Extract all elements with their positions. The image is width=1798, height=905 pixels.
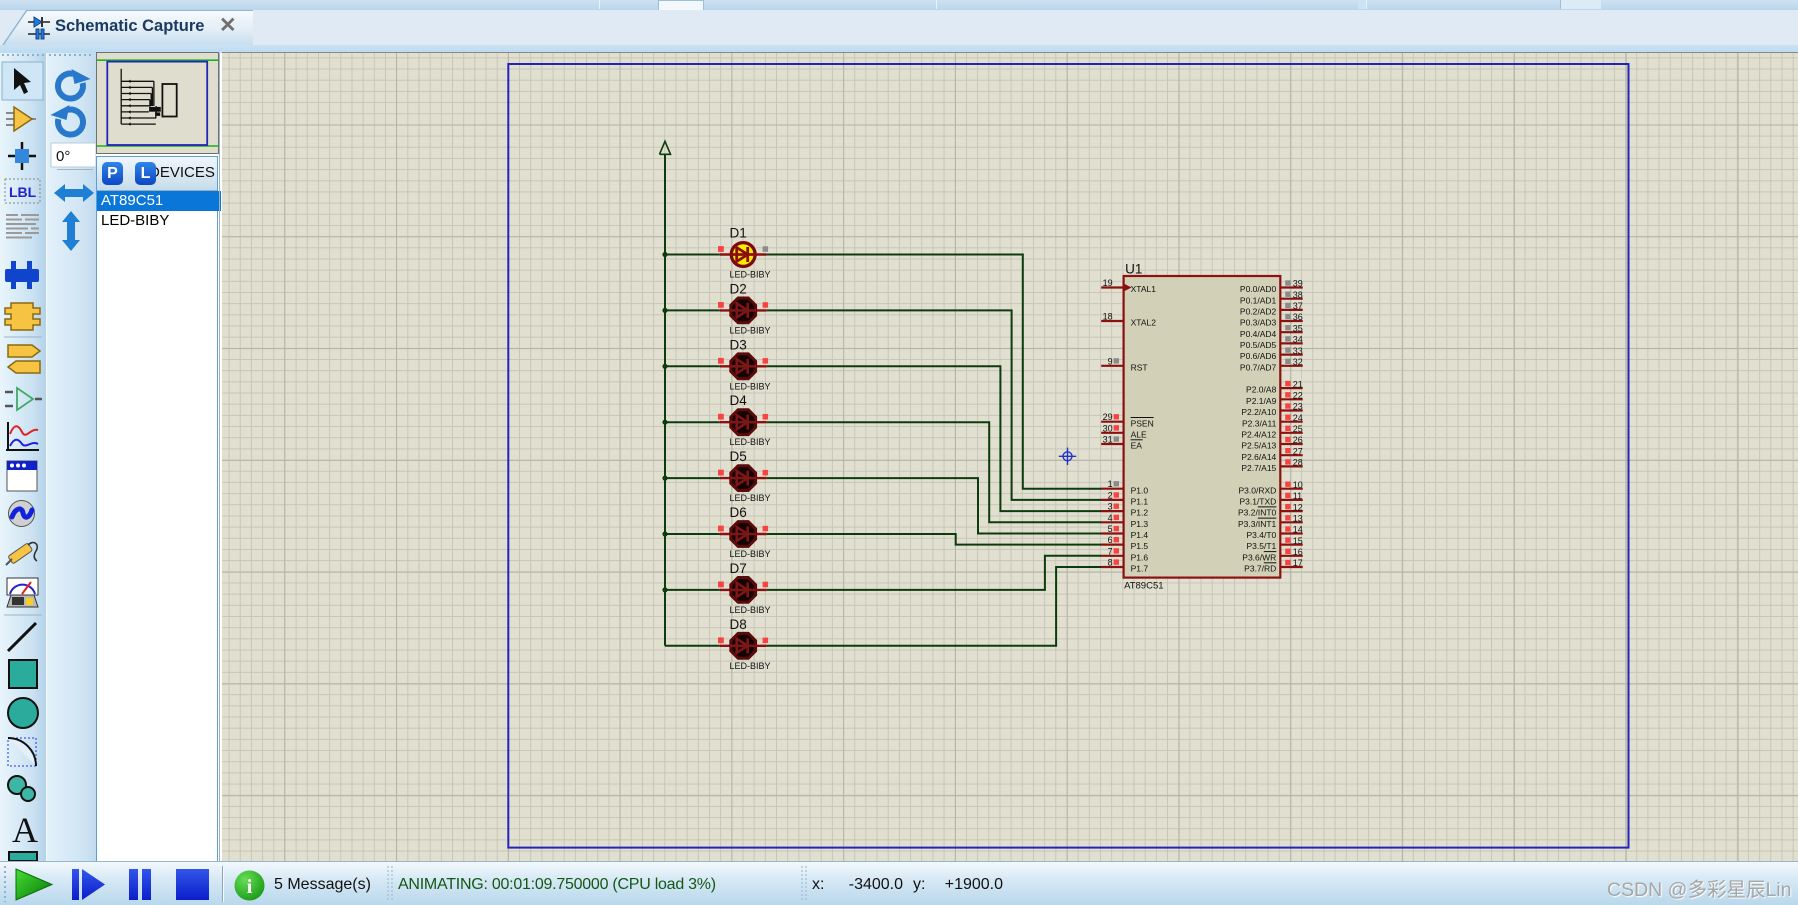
- svg-text:13: 13: [1293, 514, 1303, 524]
- svg-text:D2: D2: [730, 281, 747, 296]
- svg-text:P2.2/A10: P2.2/A10: [1241, 407, 1276, 417]
- svg-text:10: 10: [1293, 480, 1303, 490]
- pin-state square D3 cathode: [763, 358, 769, 364]
- svg-text:LED-BIBY: LED-BIBY: [730, 437, 771, 447]
- svg-text:P0.3/AD3: P0.3/AD3: [1240, 318, 1277, 328]
- svg-text:22: 22: [1293, 391, 1303, 401]
- pin 30 ALE (U1 left): [1101, 423, 1147, 439]
- pin-state square D8 anode: [718, 637, 724, 643]
- wire D8 cathode to U1 pin 8 (P1.7): [767, 567, 1102, 646]
- XTAL1 clock input marker: [1124, 284, 1132, 292]
- svg-text:LED-BIBY: LED-BIBY: [730, 493, 771, 503]
- svg-text:17: 17: [1293, 558, 1303, 568]
- pin-state square D5 cathode: [763, 470, 769, 476]
- svg-text:9: 9: [1108, 356, 1113, 366]
- pin 36 P0.3/AD3 (U1 right): [1240, 312, 1303, 327]
- pin 26 P2.5/A13 (U1 right): [1241, 435, 1303, 450]
- pin 34 P0.5/AD5 (U1 right): [1240, 335, 1303, 350]
- pin 10 P3.0/RXD (U1 right): [1239, 480, 1303, 495]
- svg-text:39: 39: [1293, 279, 1303, 289]
- svg-text:P3.5/T1: P3.5/T1: [1247, 541, 1277, 551]
- svg-text:XTAL1: XTAL1: [1131, 284, 1157, 294]
- value LED-BIBY (D1): [730, 270, 771, 280]
- pin 18 XTAL2 (U1 left): [1101, 312, 1156, 328]
- value LED-BIBY (D7): [730, 605, 771, 615]
- svg-text:P0.6/AD6: P0.6/AD6: [1240, 351, 1277, 361]
- wire power rail vertical: [664, 154, 666, 646]
- svg-text:P3.1/TXD: P3.1/TXD: [1239, 497, 1276, 507]
- pin 15 P3.5/T1 (U1 right): [1247, 536, 1303, 551]
- svg-text:28: 28: [1293, 458, 1303, 468]
- label U1: [1125, 262, 1142, 277]
- svg-text:P0.7/AD7: P0.7/AD7: [1240, 362, 1277, 372]
- svg-text:P0.4/AD4: P0.4/AD4: [1240, 329, 1277, 339]
- value LED-BIBY (D2): [730, 325, 771, 335]
- svg-text:LED-BIBY: LED-BIBY: [730, 381, 771, 391]
- svg-text:15: 15: [1293, 536, 1303, 546]
- svg-text:P2.6/A14: P2.6/A14: [1241, 452, 1276, 462]
- svg-text:P0.1/AD1: P0.1/AD1: [1240, 295, 1277, 305]
- junction rail/D7: [662, 587, 667, 592]
- pin 2 P1.1 (U1 left): [1101, 490, 1148, 506]
- label D6: [730, 505, 747, 520]
- svg-text:5: 5: [1108, 524, 1113, 534]
- junction rail/D5: [662, 476, 667, 481]
- value AT89C51: [1124, 581, 1163, 592]
- pin-state square D4 cathode: [763, 414, 769, 420]
- wire rail to D8 anode: [665, 645, 720, 647]
- wire D5 cathode to U1 pin 5 (P1.4): [767, 478, 1102, 533]
- svg-text:8: 8: [1108, 558, 1113, 568]
- svg-text:26: 26: [1293, 435, 1303, 445]
- pin 19 XTAL1 (U1 left): [1101, 278, 1156, 294]
- pin 22 P2.1/A9 (U1 right): [1246, 391, 1303, 406]
- LED D6 (LED-BIBY): [720, 522, 767, 547]
- pin 28 P2.7/A15 (U1 right): [1241, 458, 1303, 473]
- chip U1 AT89C51 body: [1124, 276, 1281, 578]
- pin 11 P3.1/TXD (U1 right): [1239, 491, 1302, 506]
- svg-text:36: 36: [1293, 312, 1303, 322]
- pin 8 P1.7 (U1 left): [1101, 558, 1148, 574]
- pin 13 P3.3/INT1 (U1 right): [1238, 514, 1303, 529]
- svg-text:LBL: LBL: [9, 184, 37, 200]
- pin 5 P1.4 (U1 left): [1101, 524, 1148, 540]
- wire D3 cathode to U1 pin 3 (P1.2): [767, 366, 1102, 511]
- junction rail/D3: [662, 364, 667, 369]
- svg-text:D8: D8: [730, 617, 747, 632]
- value LED-BIBY (D5): [730, 493, 771, 503]
- svg-text:P1.5: P1.5: [1131, 541, 1149, 551]
- pin 7 P1.6 (U1 left): [1101, 546, 1148, 562]
- label D1: [730, 226, 747, 241]
- junction rail/D6: [662, 531, 667, 536]
- pin-state square D7 cathode: [763, 582, 769, 588]
- svg-text:P3.2/INT0: P3.2/INT0: [1238, 508, 1277, 518]
- pin-state square D6 anode: [718, 526, 724, 532]
- svg-text:37: 37: [1293, 301, 1303, 311]
- pin-state square D4 anode: [718, 414, 724, 420]
- svg-text:ALE: ALE: [1131, 429, 1147, 439]
- svg-text:P3.7/RD: P3.7/RD: [1244, 564, 1276, 574]
- svg-text:2: 2: [1108, 490, 1113, 500]
- svg-text:4: 4: [1108, 513, 1113, 523]
- svg-text:30: 30: [1103, 423, 1113, 433]
- svg-text:P3.6/WR: P3.6/WR: [1242, 552, 1276, 562]
- LED D5 (LED-BIBY): [720, 466, 767, 491]
- pin 12 P3.2/INT0 (U1 right): [1238, 502, 1303, 517]
- pin-state square D7 anode: [718, 582, 724, 588]
- svg-text:P2.1/A9: P2.1/A9: [1246, 396, 1277, 406]
- value LED-BIBY (D4): [730, 437, 771, 447]
- svg-text:LED-BIBY: LED-BIBY: [730, 605, 771, 615]
- svg-text:P0.2/AD2: P0.2/AD2: [1240, 307, 1277, 317]
- svg-text:14: 14: [1293, 525, 1303, 535]
- pin-state square D1 cathode: [763, 246, 769, 252]
- svg-text:D7: D7: [730, 561, 747, 576]
- svg-text:38: 38: [1293, 290, 1303, 300]
- svg-text:D4: D4: [730, 393, 748, 408]
- svg-text:7: 7: [1108, 546, 1113, 556]
- wire rail to D1 anode: [665, 254, 720, 256]
- wire D4 cathode to U1 pin 4 (P1.3): [767, 422, 1102, 522]
- svg-text:LED-BIBY: LED-BIBY: [730, 325, 771, 335]
- wire D1 cathode to U1 pin 1 (P1.0): [767, 255, 1102, 489]
- pin 6 P1.5 (U1 left): [1101, 535, 1148, 551]
- svg-text:0°: 0°: [56, 148, 70, 165]
- svg-text:3: 3: [1108, 502, 1113, 512]
- svg-text:18: 18: [1103, 312, 1113, 322]
- svg-text:P2.3/A11: P2.3/A11: [1242, 418, 1277, 428]
- svg-text:D6: D6: [730, 505, 747, 520]
- svg-text:P1.3: P1.3: [1131, 519, 1149, 529]
- pin-state square D5 anode: [718, 470, 724, 476]
- svg-text:P3.4/T0: P3.4/T0: [1247, 530, 1277, 540]
- svg-text:27: 27: [1293, 446, 1303, 456]
- wire D6 cathode to U1 pin 6 (P1.5): [767, 534, 1102, 545]
- svg-text:34: 34: [1293, 335, 1303, 345]
- svg-text:P1.4: P1.4: [1131, 530, 1149, 540]
- svg-text:P3.3/INT1: P3.3/INT1: [1238, 519, 1277, 529]
- svg-text:1: 1: [1108, 479, 1113, 489]
- svg-text:D5: D5: [730, 449, 747, 464]
- pin 37 P0.2/AD2 (U1 right): [1240, 301, 1303, 316]
- svg-text:P1.7: P1.7: [1131, 564, 1149, 574]
- svg-text:EA: EA: [1131, 441, 1143, 451]
- svg-text:P1.1: P1.1: [1131, 497, 1149, 507]
- pin 14 P3.4/T0 (U1 right): [1247, 525, 1303, 540]
- wire rail to D5 anode: [665, 477, 720, 479]
- svg-text:LED-BIBY: LED-BIBY: [730, 270, 771, 280]
- svg-text:P2.5/A13: P2.5/A13: [1241, 441, 1276, 451]
- svg-text:D3: D3: [730, 337, 747, 352]
- pin 24 P2.3/A11 (U1 right): [1242, 413, 1303, 428]
- pin 4 P1.3 (U1 left): [1101, 513, 1148, 529]
- svg-text:P2.7/A15: P2.7/A15: [1241, 463, 1276, 473]
- wire rail to D7 anode: [665, 589, 720, 591]
- pin 3 P1.2 (U1 left): [1101, 502, 1148, 518]
- wire rail to D3 anode: [665, 365, 720, 367]
- pin-state square D2 cathode: [763, 302, 769, 308]
- wire D7 cathode to U1 pin 7 (P1.6): [767, 556, 1102, 590]
- pin-state square D2 anode: [718, 302, 724, 308]
- label D2: [730, 281, 747, 296]
- pin 35 P0.4/AD4 (U1 right): [1240, 323, 1303, 338]
- svg-text:PSEN: PSEN: [1131, 418, 1154, 428]
- pin 27 P2.6/A14 (U1 right): [1241, 446, 1303, 461]
- label D8: [730, 617, 747, 632]
- svg-text:P2.4/A12: P2.4/A12: [1241, 429, 1276, 439]
- label D5: [730, 449, 747, 464]
- mouse crosshair cursor: [1059, 448, 1076, 465]
- svg-text:19: 19: [1103, 278, 1113, 288]
- svg-text:24: 24: [1293, 413, 1303, 423]
- value LED-BIBY (D6): [730, 549, 771, 559]
- LED D1 (LED-BIBY) lit: [720, 243, 767, 267]
- svg-text:A: A: [12, 810, 38, 850]
- wire rail to D2 anode: [665, 309, 720, 311]
- svg-text:P3.0/RXD: P3.0/RXD: [1239, 485, 1277, 495]
- svg-text:33: 33: [1293, 346, 1303, 356]
- pin 17 P3.7/RD (U1 right): [1244, 558, 1303, 573]
- junction rail/D4: [662, 420, 667, 425]
- svg-text:12: 12: [1293, 502, 1303, 512]
- label D4: [730, 393, 748, 408]
- svg-text:P1.2: P1.2: [1131, 508, 1149, 518]
- svg-text:31: 31: [1103, 435, 1113, 445]
- LED D4 (LED-BIBY): [720, 410, 767, 435]
- LED D8 (LED-BIBY): [720, 633, 767, 658]
- svg-text:29: 29: [1103, 412, 1113, 422]
- pin 16 P3.6/WR (U1 right): [1242, 547, 1303, 562]
- LED D7 (LED-BIBY): [720, 578, 767, 603]
- svg-text:D1: D1: [730, 226, 747, 241]
- LED D2 (LED-BIBY): [720, 298, 767, 323]
- pin 1 P1.0 (U1 left): [1101, 479, 1148, 495]
- pin 21 P2.0/A8 (U1 right): [1246, 379, 1303, 394]
- value LED-BIBY (D8): [730, 661, 771, 671]
- pin 31 EA (U1 left): [1101, 435, 1142, 451]
- pin 32 P0.7/AD7 (U1 right): [1240, 357, 1303, 372]
- svg-text:23: 23: [1293, 402, 1303, 412]
- value LED-BIBY (D3): [730, 381, 771, 391]
- wire rail to D6 anode: [665, 533, 720, 535]
- label D7: [730, 561, 747, 576]
- svg-text:35: 35: [1293, 323, 1303, 333]
- pin 33 P0.6/AD6 (U1 right): [1240, 346, 1303, 361]
- junction rail/D2: [662, 308, 667, 313]
- wire D2 cathode to U1 pin 2 (P1.1): [767, 310, 1102, 500]
- pin 9 RST (U1 left): [1101, 356, 1147, 372]
- wire rail to D4 anode: [665, 421, 720, 423]
- power terminal (POWER, +5V rail top): [660, 141, 671, 154]
- pin-state square D6 cathode: [763, 526, 769, 532]
- junction rail/D1: [662, 252, 667, 257]
- pin 39 P0.0/AD0 (U1 right): [1240, 279, 1303, 294]
- pin-state square D1 anode: [718, 246, 724, 252]
- pin 25 P2.4/A12 (U1 right): [1241, 424, 1303, 439]
- pin 38 P0.1/AD1 (U1 right): [1240, 290, 1303, 305]
- svg-text:32: 32: [1293, 357, 1303, 367]
- svg-text:RST: RST: [1131, 362, 1148, 372]
- svg-text:P1.6: P1.6: [1131, 552, 1149, 562]
- svg-text:25: 25: [1293, 424, 1303, 434]
- svg-text:XTAL2: XTAL2: [1131, 318, 1157, 328]
- svg-text:i: i: [247, 876, 253, 898]
- svg-text:P1.0: P1.0: [1131, 485, 1149, 495]
- svg-text:21: 21: [1293, 379, 1303, 389]
- svg-text:LED-BIBY: LED-BIBY: [730, 549, 771, 559]
- label D3: [730, 337, 747, 352]
- pin 29 PSEN (U1 left): [1101, 412, 1154, 428]
- svg-text:U1: U1: [1125, 262, 1142, 277]
- pin-state square D8 cathode: [763, 638, 769, 644]
- pin 23 P2.2/A10 (U1 right): [1241, 402, 1303, 417]
- svg-text:P2.0/A8: P2.0/A8: [1246, 385, 1277, 395]
- svg-text:P0.0/AD0: P0.0/AD0: [1240, 284, 1277, 294]
- svg-text:AT89C51: AT89C51: [1124, 581, 1163, 592]
- svg-text:11: 11: [1293, 491, 1302, 501]
- sheet border: [508, 64, 1628, 848]
- svg-text:6: 6: [1108, 535, 1113, 545]
- svg-text:16: 16: [1293, 547, 1303, 557]
- svg-text:LED-BIBY: LED-BIBY: [730, 661, 771, 671]
- pin-state square D3 anode: [718, 358, 724, 364]
- LED D3 (LED-BIBY): [720, 354, 767, 379]
- svg-text:P0.5/AD5: P0.5/AD5: [1240, 340, 1277, 350]
